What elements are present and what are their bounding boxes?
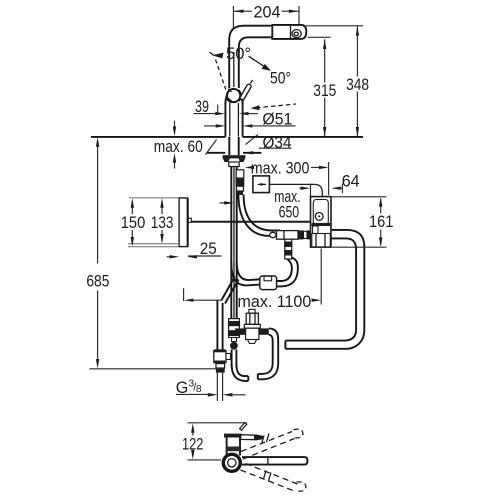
50 deg left arrowhead [210, 52, 224, 58]
hose weight [260, 276, 277, 290]
dim G3/8 [176, 378, 246, 397]
svg-text:max. 1100: max. 1100 [238, 293, 312, 311]
G3/8 supply fitting [216, 364, 225, 401]
dim max300 [245, 159, 329, 195]
dim 204 extension lines [233, 6, 299, 28]
power supply box [253, 176, 270, 193]
svg-text:348: 348 [346, 76, 369, 94]
dim max60 [154, 121, 203, 169]
hose from weight up to T-connector [277, 258, 298, 287]
bottom reference line for 685 [89, 368, 219, 370]
side view: lever horizontal with black tip [241, 435, 263, 440]
dim diam51 [239, 110, 293, 128]
svg-text:max. 60: max. 60 [154, 138, 203, 156]
svg-text:685: 685 [86, 273, 109, 291]
svg-text:50°: 50° [226, 45, 251, 63]
control box [311, 197, 332, 248]
faucet front: spout inner bend / tube underside [239, 37, 272, 52]
T-connector on riser [284, 239, 292, 259]
faucet front: spout outer bend and top [229, 26, 272, 52]
left box (side view of control unit) [179, 198, 191, 247]
dim 150 and 133 [121, 198, 180, 247]
power cable to control box [269, 184, 322, 196]
side view: spout tube [242, 457, 308, 465]
riser pair continues to open end [232, 350, 249, 381]
left supply pipe [217, 301, 222, 351]
50 deg right dashed swivel line [239, 80, 253, 102]
svg-text:133: 133 [151, 214, 174, 232]
dim 204 [233, 3, 299, 21]
faucet front: joint bulge [225, 89, 242, 104]
solenoid valve assembly [235, 309, 269, 343]
supply hose bundle [231, 167, 236, 321]
faucet front: body cylinder [225, 102, 242, 137]
dim max1100 [184, 249, 322, 311]
50 deg dashed arrow to body [251, 104, 297, 110]
diagonal branch to left supply pipe [221, 277, 238, 304]
side view: raised lever tick [240, 423, 247, 431]
side view: pivot [223, 454, 240, 471]
svg-text:64: 64 [342, 173, 360, 191]
svg-text:8: 8 [196, 384, 202, 395]
spray hose curve from bundle to weight [231, 262, 259, 285]
50 deg left dashed swivel line [216, 60, 226, 90]
faucet front: neck [229, 50, 239, 88]
svg-text:315: 315 [313, 82, 336, 100]
mounting shelf line [191, 221, 310, 223]
countertop bottom line [206, 140, 262, 155]
svg-text:161: 161 [369, 213, 393, 231]
svg-text:150: 150 [121, 214, 146, 232]
svg-text:204: 204 [254, 3, 281, 21]
svg-text:50°: 50° [270, 69, 291, 87]
side view: body cap [224, 434, 242, 438]
shank stub below nut [229, 162, 239, 167]
side view: dim 122 [182, 423, 247, 460]
dim 39 [194, 98, 225, 116]
50 deg right leader and arrowhead [249, 56, 271, 71]
hose from faucet to inline connector [238, 195, 280, 238]
svg-text:122: 122 [182, 435, 203, 453]
dim 685 [86, 137, 109, 368]
dim 315 extension line top [308, 36, 331, 38]
countertop top line [91, 136, 363, 138]
dim max650 [220, 188, 301, 221]
dim diam34 [204, 124, 296, 152]
faucet front: lever handle [240, 84, 251, 100]
inline connector fitting [277, 230, 311, 239]
svg-text:max. 300: max. 300 [251, 159, 310, 177]
control box outlet hose (big loop) [285, 230, 364, 349]
dim 315 [313, 39, 336, 137]
dim 161 [332, 197, 393, 247]
J hose from solenoid valve [258, 328, 278, 379]
faucet front: pull-out head [272, 25, 306, 39]
dim 64 [300, 173, 360, 197]
dim 348 extension line top [306, 25, 363, 27]
faucet front: aerator [292, 29, 301, 37]
dim 25 [167, 240, 222, 258]
mounting nut [223, 155, 246, 162]
check valve on riser pair [228, 319, 240, 350]
side view: upper dashed swivel position [241, 429, 303, 459]
dim 348 [346, 26, 369, 137]
left T-fitting [214, 349, 231, 363]
side view: lower dashed swivel position [241, 464, 306, 492]
faucet shank between counter lines [229, 137, 238, 155]
check valve stack on faucet hose (upper) [236, 170, 245, 195]
svg-text:650: 650 [279, 203, 300, 221]
side view: body [227, 437, 240, 455]
